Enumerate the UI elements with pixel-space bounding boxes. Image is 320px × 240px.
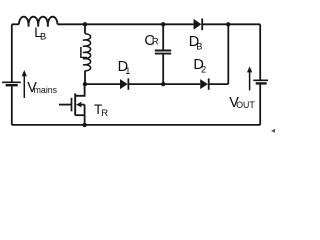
svg-text:R: R bbox=[152, 37, 159, 47]
svg-text:OUT: OUT bbox=[236, 100, 255, 110]
svg-text:B: B bbox=[40, 31, 46, 41]
svg-text:mains: mains bbox=[34, 85, 58, 95]
svg-text:R: R bbox=[101, 108, 108, 118]
svg-text:L: L bbox=[79, 45, 88, 62]
svg-text:2: 2 bbox=[201, 64, 206, 74]
svg-text:1: 1 bbox=[125, 66, 130, 76]
svg-text:B: B bbox=[196, 42, 202, 52]
